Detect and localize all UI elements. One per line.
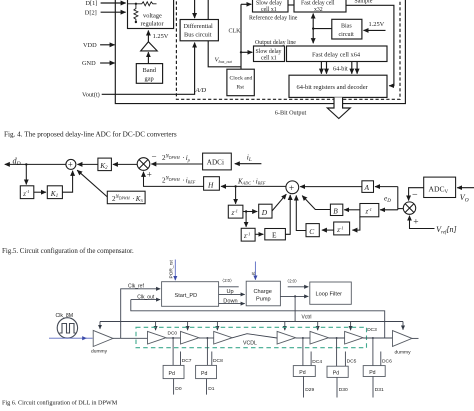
svg-text:+: + [68,160,73,170]
wire bus arrow into loop filter [288,286,309,288]
wire dD output arrow [5,163,66,165]
wire tap1 to Pd1 [172,338,174,365]
svg-text:K1: K1 [50,189,58,199]
loop filter box [310,282,352,304]
wire stage6 to dummy right [363,337,392,339]
node dot zE branch [245,210,247,212]
wire Clk_out feedback from VCDL end [131,300,385,339]
svg-text:A/D: A/D [195,87,207,94]
wire Down [219,303,245,305]
svg-text:D[1]: D[1] [86,0,98,7]
svg-text:Bus circuit: Bus circuit [184,31,212,38]
svg-text:Bias: Bias [341,24,352,30]
svg-text:z-1: z-1 [231,209,238,218]
svg-text:〈2:0〉: 〈2:0〉 [285,278,299,283]
wire mixer2 to K2 [113,163,137,165]
wire D31 out [372,377,374,398]
svg-text:eD: eD [384,194,391,205]
svg-text:voltage: voltage [143,13,162,20]
svg-text:x32: x32 [314,7,323,13]
Pd1 box [163,365,184,378]
wire dummy right out [412,337,419,339]
wire ADCv to mixer3 minus [409,188,424,201]
wire vctrl to stage4 [284,322,286,331]
node VDD [83,42,115,49]
voltage regulator box [128,0,174,29]
gain K2 box [98,158,112,171]
node dot tap5 [372,337,374,339]
wire dummy to stage1 [113,337,148,339]
svg-text:Clk_out: Clk_out [137,294,155,300]
Pd3 box [293,366,315,377]
wire E to summer-big [285,195,290,234]
wire top into diff bus with arrow [194,0,196,18]
node dot top [135,3,137,5]
delay zD box [228,205,243,218]
svg-text:cell x1: cell x1 [261,56,277,62]
svg-text:Vout(t): Vout(t) [82,92,100,99]
wire Sample feedback [346,5,394,85]
Start_PD box [162,282,219,307]
fast delay cell x32 box [294,0,346,13]
wire vctrl to stage2 [187,322,189,331]
dummy buffer left [93,330,113,346]
node dot bottom [135,21,137,23]
wire vctrl drop [294,296,296,321]
6-bit output hollow arrow [327,97,350,118]
wire B diagonal to summer-big [302,196,330,210]
node dot CLK branch [240,51,242,53]
svg-text:DC7: DC7 [182,358,192,364]
svg-text:〈2:0〉: 〈2:0〉 [220,278,234,283]
wire x32 down to x64 double arrow [312,14,314,44]
fast delay cell x64 box [287,46,388,62]
svg-text:Vref[n]: Vref[n] [436,225,457,236]
wire stage5 to stage6 [329,337,345,339]
gain K1 box [47,186,62,199]
svg-text:H: H [207,181,214,190]
svg-text:−: − [412,190,418,201]
svg-text:2NDPWM ·iREF: 2NDPWM ·iREF [162,176,196,184]
dummy buffer right [393,331,413,347]
svg-text:B: B [333,206,338,215]
svg-text:DC0: DC0 [168,331,178,337]
wire tap5 to Pd5 [372,338,374,366]
svg-text:DC3: DC3 [367,327,377,333]
svg-text:Pd: Pd [333,371,339,377]
svg-text:Fig. 4. The proposed delay-li: Fig. 4. The proposed delay-line ADC for … [4,131,177,139]
gain B box [330,204,342,215]
wire regulator to buffer [147,31,149,42]
svg-text:DC4: DC4 [312,359,322,365]
wire summer-big to H [221,185,286,187]
differential bus circuit box [180,20,218,41]
svg-text:D: D [261,208,268,217]
wire bus stub start_pd [219,286,239,288]
wire vctrl to dummy right [402,322,404,330]
delay z-1 box K1 path [20,186,34,199]
svg-text:DC5: DC5 [347,358,357,364]
wire K2 to summer1 [77,163,98,165]
wire eD bus to A [375,186,398,188]
wire Vbus_out [208,41,241,67]
svg-text:Output delay line: Output delay line [255,40,296,46]
node dot H line branch [234,185,236,187]
Pd5 box [363,366,385,377]
node D[2] [85,9,126,16]
wire D30 out [336,377,338,397]
svg-text:Fig 6. Circuit configuration o: Fig 6. Circuit configuration of DLL in D… [2,400,118,407]
wire clk_8M blue into dummy [49,337,87,339]
wire CLK to reference slow cell [241,3,251,5]
wire 64bit arrow 1 [320,62,322,74]
mixer3 circle with X [403,202,415,214]
wire branch to bias circuit [313,28,332,30]
svg-text:ADCV: ADCV [429,184,449,194]
wire stage1 to stage2 [166,337,181,339]
wire A to summer-big [300,186,362,188]
wire CLK vertical [240,4,242,69]
node GND [82,60,115,67]
wire CLK to output slow cell [241,51,252,53]
wire tap2 to Pd2 [206,338,208,365]
gain D box [259,204,272,218]
resistor vertical in regulator [134,4,138,22]
wire D29 out [303,377,305,398]
wire D diagonal to summer-big [272,194,286,211]
svg-text:DC8: DC8 [213,358,223,364]
delay zC box [334,222,350,235]
wire DC5 tick [344,352,346,367]
svg-text:GND: GND [82,60,96,67]
node dot bias branch [312,27,314,29]
svg-text:+: + [413,218,418,228]
wire vctrl to stage5 [317,322,319,331]
wire CP to loop filter [280,295,308,297]
svg-text:gap: gap [145,76,154,83]
wire tap3 to Pd3 [302,338,304,366]
vcdl stage5 buffer [310,331,329,344]
wire DC7 tick [180,352,182,366]
svg-text:2NDPWM ·ip: 2NDPWM ·ip [162,154,191,162]
svg-text:K2: K2 [99,161,108,171]
svg-text:ADCi: ADCi [207,158,224,166]
svg-text:Pd: Pd [201,371,207,377]
wire D1 out [206,379,208,395]
svg-text:z-1: z-1 [22,189,29,198]
node Vout(t) [82,92,100,99]
wire zD to D [243,211,257,213]
gain H box [204,177,220,191]
svg-text:Vctrl: Vctrl [302,315,312,321]
Pd4 box [327,366,348,377]
vcdl stage4 buffer [277,331,296,344]
summer1 circle [66,159,76,169]
node D[1] [86,0,126,7]
svg-text:circuit: circuit [339,32,355,38]
wire POR_rst blue arrow [174,260,176,281]
ADCv box [424,177,456,197]
clock waveform glyph [60,324,76,334]
svg-text:DC6: DC6 [382,358,392,364]
svg-text:VCDL: VCDL [243,341,257,347]
svg-text:Charge: Charge [254,289,272,295]
wire vctrl to stage3 [216,322,218,331]
node dot tap1 [172,337,174,339]
svg-text:Pd: Pd [299,370,305,376]
svg-text:Reference delay line: Reference delay line [249,14,298,21]
buffer amp triangle [141,42,158,51]
svg-text:VO: VO [460,193,469,204]
wire bandgap to buffer [147,52,149,63]
svg-text:Loop Filter: Loop Filter [316,291,343,297]
wire slow to fast reference [288,4,294,6]
svg-text:1.25V: 1.25V [153,33,169,40]
wire Id blue arrow [254,262,256,280]
bias circuit box [332,19,362,39]
wire iL into ADCi [235,163,262,165]
svg-text:cell x1: cell x1 [261,7,277,13]
gain E box [265,229,286,240]
wire Vctrl rail [100,321,403,323]
wire Clk_ref tap [121,289,161,339]
node dot tap4 [336,337,338,339]
gain C box [306,224,319,237]
node dot tap2 [206,337,208,339]
vcdl stage6 buffer [345,331,364,344]
wire zE to E [255,233,263,235]
svg-text:D30: D30 [339,387,348,393]
svg-text:Rst: Rst [237,85,245,91]
wire vctrl to dummy left [99,322,101,329]
svg-text:D[2]: D[2] [85,9,97,16]
wire ADCi to mixer2 [151,163,202,165]
svg-text:Slow delay: Slow delay [256,49,282,55]
wire H to mixer2 plus [144,172,204,187]
wire 64bit arrow 4 [356,62,358,74]
wire K3 diagonal to summer1 [77,170,107,197]
wire Vout(t) to Differential Bus circuit [102,43,195,95]
svg-text:POR_rst: POR_rst [169,259,175,278]
svg-text:Clock and: Clock and [230,76,253,82]
svg-text:Vbus_out: Vbus_out [215,57,233,65]
svg-text:Sample: Sample [354,0,372,4]
node dot tap3 [302,337,304,339]
wire DC8 tick [211,352,213,366]
slow delay cell x1 reference box [253,0,289,13]
wire K1 to summer1 [62,171,72,192]
wire Vo into ADCv [457,187,474,189]
svg-text:Slow delay: Slow delay [256,1,282,7]
svg-text:+: + [147,170,152,180]
svg-text:KADC·iREF: KADC·iREF [237,177,266,185]
ADCi box [203,153,232,170]
svg-text:−: − [152,152,157,162]
wire 64bit arrow 3 [351,62,353,74]
svg-text:Band: Band [143,67,157,74]
svg-text:z-1: z-1 [243,232,250,241]
vcdl stage1 buffer [148,331,167,344]
svg-text:64-bit: 64-bit [333,65,348,72]
svg-text:6-Bit Output: 6-Bit Output [275,109,307,116]
svg-text:D0: D0 [175,386,182,392]
wire Up [219,293,245,295]
wire stage3 to stage4 break [232,334,277,338]
wire C to summer-big [296,196,306,231]
node dot vctrl source [294,295,296,297]
vcdl stage2 buffer [181,331,200,344]
wire zB to B [344,209,360,211]
svg-text:1.25V: 1.25V [369,21,385,28]
svg-text:Clk_ref: Clk_ref [128,284,144,290]
svg-text:Fast delay cell: Fast delay cell [301,1,335,7]
VCDL dashed box green [136,327,367,347]
wire DC4 tick [310,352,312,366]
charge pump box [246,281,280,306]
wire Clk_out into Start_PD [131,299,160,301]
svg-text:dummy: dummy [395,349,412,355]
svg-text:iL: iL [247,153,252,164]
wire DC6 tick [380,352,382,366]
wire 64bit arrow 2 [326,62,328,74]
wire vctrl to stage1 [155,322,157,331]
wire zC to C [322,229,334,231]
64-bit registers and decoder box [289,75,387,97]
svg-text:dummy: dummy [91,348,108,354]
wire eD bus vertical [397,187,399,210]
svg-text:Differential: Differential [184,23,214,30]
svg-text:Start_PD: Start_PD [175,293,198,299]
vcdl stage3 buffer [214,331,233,344]
svg-text:CLK: CLK [229,29,242,35]
Pd2 box [196,365,217,378]
svg-text:A: A [364,183,370,192]
delay zB box [360,204,379,217]
svg-text:z-1: z-1 [365,207,372,216]
wire down to z-1 [25,164,27,184]
wire mixer3 out to eD bus [398,208,404,210]
wire Vref into mixer3 plus [410,216,435,229]
svg-text:2NDPWM ·K3: 2NDPWM ·K3 [112,195,143,203]
svg-text:dD: dD [13,157,21,168]
clock source circle [57,318,77,338]
node dot dD branch [25,163,27,165]
wire 1.25V into bias [364,29,386,31]
wire D0 out [173,379,175,395]
svg-text:VDD: VDD [83,42,97,49]
svg-text:+: + [289,184,294,194]
outer chip box (top cropped) [115,0,405,104]
wire stage2 to stage3 [199,337,214,339]
mixer2 circle with X [137,158,150,171]
svg-text:D29: D29 [305,387,314,393]
wire top into diff bus plain [207,0,209,20]
resistor horizontal in regulator [128,2,157,6]
gain A box [362,181,374,193]
wire z-1 to K1 [34,191,46,193]
svg-text:regulator: regulator [141,21,165,28]
svg-text:D31: D31 [375,387,384,393]
svg-text:Pump: Pump [256,297,271,303]
clock and rst box [227,69,254,96]
delay zE box [241,228,255,241]
svg-text:C: C [309,227,314,236]
svg-text:64-bit registers and decoder: 64-bit registers and decoder [297,84,369,91]
svg-text:E: E [272,231,277,240]
wire stage4 to stage5 [296,337,310,339]
svg-text:D1: D1 [208,386,215,392]
wire zB bottom to zC [352,217,360,230]
svg-text:Fig.5. Circuit configuration o: Fig.5. Circuit configuration of the comp… [2,248,134,255]
svg-text:z-1: z-1 [336,225,343,234]
band gap box [136,64,162,84]
wire drop to zD [235,186,237,203]
svg-text:Pd: Pd [169,371,175,377]
A/D dashed box [176,0,400,99]
svg-text:Fast delay cell x64: Fast delay cell x64 [312,52,361,59]
summer-big circle [286,181,299,194]
wire vctrl to stage6 [350,322,352,331]
svg-text:Pd: Pd [369,370,375,376]
wire tap4 to Pd4 [336,338,338,366]
wire drop to zE [245,212,247,227]
wire eD bus to zB [380,209,398,211]
coeff 2^Ndpwm K3 box [107,191,145,204]
slow delay cell x1 output box [254,46,285,62]
